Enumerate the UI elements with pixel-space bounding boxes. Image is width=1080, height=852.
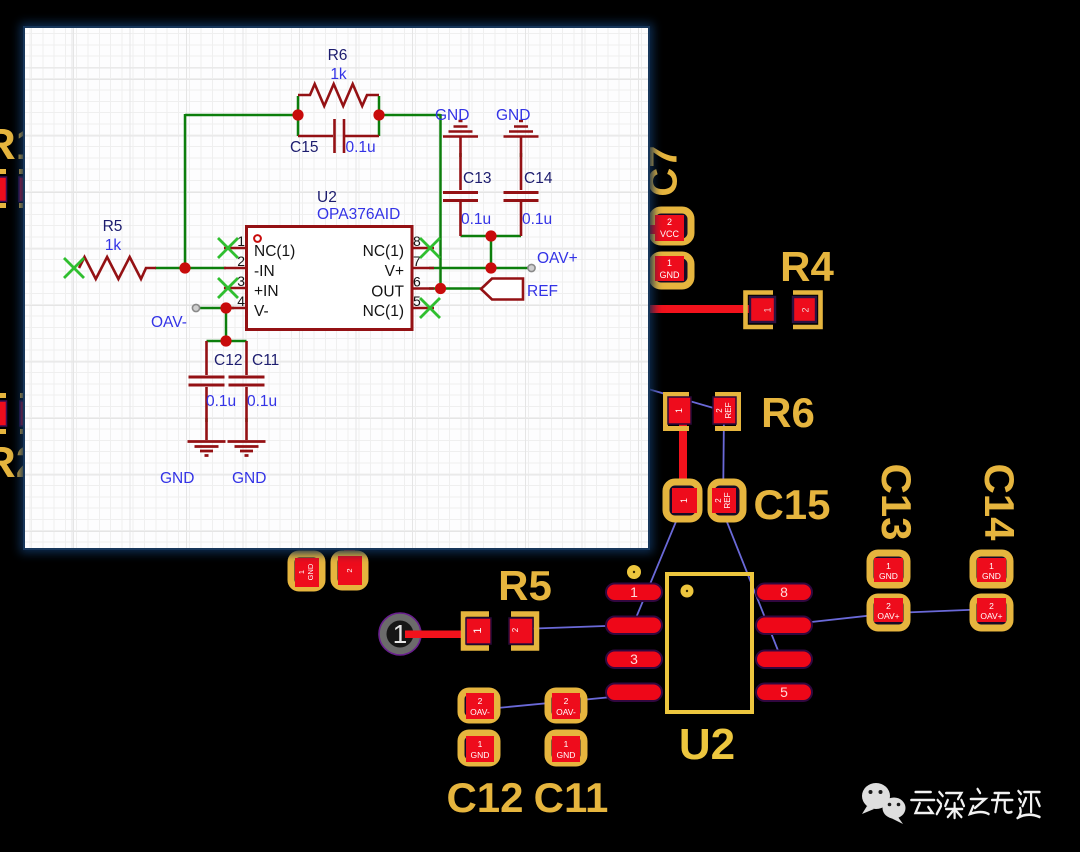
svg-text:2: 2 [345, 568, 354, 572]
svg-text:C15: C15 [753, 481, 830, 528]
resistor R5 footprint [464, 562, 552, 648]
capacitor C7 footprint [642, 145, 691, 286]
svg-text:0.1u: 0.1u [206, 393, 236, 410]
svg-text:GND: GND [557, 750, 576, 760]
svg-text:2: 2 [800, 307, 810, 312]
svg-text:C12: C12 [446, 774, 523, 821]
svg-text:4: 4 [237, 293, 245, 309]
resistor R6 footprint [666, 389, 815, 436]
svg-text:C13: C13 [873, 463, 920, 540]
svg-text:GND: GND [435, 107, 469, 124]
svg-text:C13: C13 [463, 170, 491, 187]
wire trace via to R5.1 [405, 631, 467, 639]
svg-text:U2: U2 [679, 720, 735, 769]
port REF [481, 279, 523, 300]
wire OAV- to pin4 [198, 307, 234, 310]
svg-text:0.1u: 0.1u [346, 139, 376, 156]
capacitor C12 [189, 341, 225, 440]
capacitor C14 [504, 193, 539, 237]
svg-text:VCC: VCC [660, 229, 680, 239]
svg-text:C14: C14 [524, 170, 553, 187]
svg-text:+IN: +IN [254, 283, 279, 300]
pad 2 under panel edge [334, 549, 365, 587]
junction C13/C14 bottom [485, 230, 496, 241]
svg-text:OAV-: OAV- [556, 707, 576, 717]
svg-text:C12: C12 [214, 352, 242, 369]
pin1 indicator [254, 235, 261, 242]
resistor R2 (partial, left edge) [0, 393, 40, 487]
resistor R1 (partial, left edge) [0, 120, 40, 208]
junction C12/C11 top [220, 335, 231, 346]
GND symbol top 2 [504, 121, 539, 190]
svg-text:1: 1 [472, 627, 484, 633]
svg-text:1: 1 [237, 233, 245, 249]
svg-text:NC(1): NC(1) [254, 243, 295, 260]
wire V- down [225, 308, 228, 341]
capacitor C15 footprint [666, 481, 831, 528]
svg-text:1: 1 [762, 307, 772, 312]
ratsnest C15.1 to U2.2 to R5.2 [521, 500, 685, 629]
svg-text:OAV+: OAV+ [537, 250, 578, 267]
capacitor C13 [443, 193, 478, 237]
pin numbers [237, 233, 421, 309]
svg-text:NC(1): NC(1) [363, 303, 404, 320]
svg-text:1: 1 [564, 739, 569, 749]
resistor R5 [79, 257, 156, 279]
svg-text:GND: GND [660, 270, 681, 280]
svg-text:C11: C11 [534, 774, 609, 821]
svg-text:2: 2 [511, 627, 520, 632]
svg-text:R6: R6 [761, 389, 815, 436]
svg-text:OAV+: OAV+ [877, 611, 899, 621]
net label OAV- [192, 304, 199, 311]
wire GND caps junction [461, 235, 522, 238]
svg-text:GND: GND [306, 563, 315, 580]
svg-text:2: 2 [886, 601, 891, 611]
svg-text:GND: GND [496, 107, 530, 124]
wire OUT pin6 to REF [429, 287, 481, 290]
junction -IN node [179, 262, 190, 273]
no-ERC X input [64, 258, 84, 278]
junction OUT node [435, 283, 446, 294]
svg-text:1: 1 [667, 258, 672, 268]
svg-text:8: 8 [413, 233, 421, 249]
char wu [992, 793, 1012, 813]
svg-text:2: 2 [715, 408, 724, 413]
pad GND1 under panel edge [291, 554, 322, 588]
capacitor C14 footprint [973, 463, 1023, 628]
svg-text:2: 2 [667, 217, 672, 227]
char zhi [970, 789, 989, 814]
svg-text:REF: REF [527, 283, 558, 300]
watermark text [911, 789, 1039, 818]
junction V- pin4 [220, 302, 231, 313]
svg-text:0.1u: 0.1u [522, 211, 552, 228]
ratsnest U2.7 to C13.2 to C14.2 [784, 609, 991, 625]
svg-text:-IN: -IN [254, 263, 275, 280]
svg-text:3: 3 [630, 651, 638, 667]
wire C12-C11 top [207, 340, 247, 343]
svg-text:NC(1): NC(1) [363, 243, 404, 260]
wire R6 corners [298, 96, 379, 136]
ratsnest C15.2 to U2.6 via R6.2 [648, 389, 781, 658]
char yun [911, 792, 934, 813]
wire feedback left vertical [184, 114, 187, 268]
no-ERC X pin 1 [218, 238, 238, 258]
svg-text:6: 6 [413, 274, 421, 290]
resistor R4 footprint [746, 243, 835, 327]
svg-text:0.1u: 0.1u [247, 393, 277, 410]
svg-text:2: 2 [478, 696, 483, 706]
svg-text:C14: C14 [976, 463, 1023, 541]
wire stubs on cap leads [207, 153, 522, 422]
svg-text:GND: GND [879, 571, 898, 581]
svg-text:OUT: OUT [371, 284, 404, 301]
svg-text:1: 1 [478, 739, 483, 749]
wire feedback top [185, 114, 298, 117]
svg-text:GND: GND [232, 470, 266, 487]
svg-text:1: 1 [630, 584, 638, 600]
svg-text:REF: REF [724, 402, 733, 418]
svg-text:R5: R5 [103, 218, 123, 235]
capacitor C11 footprint [534, 691, 609, 821]
svg-text:1k: 1k [105, 237, 122, 254]
capacitor C13 footprint [870, 463, 920, 628]
junction V+ node [485, 262, 496, 273]
ratsnest C12.2 to U2.4 [476, 695, 633, 710]
svg-text:C11: C11 [252, 352, 279, 369]
svg-text:1: 1 [679, 498, 689, 503]
capacitor C12 footprint [446, 691, 523, 821]
via 1 [379, 613, 421, 655]
svg-text:8: 8 [780, 584, 788, 600]
pin stubs right [412, 248, 434, 308]
svg-text:C15: C15 [290, 139, 318, 156]
junction R6 left [292, 109, 303, 120]
svg-text:V-: V- [254, 303, 269, 320]
char ji [1018, 791, 1040, 818]
char shen [937, 792, 964, 818]
wire R6 right to corner [379, 114, 441, 117]
svg-text:7: 7 [413, 253, 421, 269]
svg-text:0.1u: 0.1u [461, 211, 491, 228]
svg-text:3: 3 [237, 273, 245, 289]
svg-text:2: 2 [564, 696, 569, 706]
wire output feedback vertical [439, 114, 442, 289]
junction R6 right [373, 109, 384, 120]
op-amp U2 box [247, 227, 413, 330]
capacitor C11 [229, 341, 265, 440]
svg-text:1: 1 [886, 561, 891, 571]
GND symbol bottom 1 [188, 442, 226, 456]
svg-text:GND: GND [471, 750, 490, 760]
wire trace to R4 [648, 305, 758, 313]
no-ERC X pin 8 [420, 238, 440, 258]
svg-text:2: 2 [989, 601, 994, 611]
wire V+ pin7 to OAV+ [429, 267, 531, 270]
GND symbol bottom 2 [228, 442, 266, 456]
svg-text:OPA376AID: OPA376AID [317, 206, 400, 223]
svg-text:1: 1 [297, 570, 306, 574]
svg-text:REF: REF [723, 492, 732, 508]
wire R5 to -IN [155, 267, 226, 270]
watermark wechat icon [862, 783, 906, 824]
svg-text:1: 1 [989, 561, 994, 571]
svg-text:1k: 1k [330, 66, 347, 83]
svg-text:OAV-: OAV- [151, 314, 187, 331]
svg-text:5: 5 [780, 684, 788, 700]
pin names [254, 243, 405, 320]
no-ERC X pin 5 [420, 298, 440, 318]
svg-text:5: 5 [413, 293, 421, 309]
IC U2 footprint [606, 565, 812, 769]
svg-text:R4: R4 [780, 243, 834, 290]
svg-text:R5: R5 [498, 562, 552, 609]
svg-text:2: 2 [237, 253, 245, 269]
svg-text:GND: GND [160, 470, 194, 487]
capacitor C15 [298, 119, 379, 153]
pin stubs left [224, 248, 246, 308]
svg-text:U2: U2 [317, 189, 337, 206]
no-ERC X pin 3 [218, 278, 238, 298]
svg-text:GND: GND [982, 571, 1001, 581]
net label OAV+ [528, 264, 535, 271]
GND symbol top 1 [443, 121, 478, 190]
wire junction to V+ [490, 236, 493, 268]
wire trace R6.1 to C15.1 [679, 420, 687, 494]
svg-text:1: 1 [674, 408, 684, 413]
resistor R6 [298, 84, 379, 106]
svg-text:V+: V+ [385, 263, 404, 280]
svg-text:OAV-: OAV- [470, 707, 490, 717]
svg-text:R6: R6 [328, 47, 348, 64]
svg-text:OAV+: OAV+ [980, 611, 1002, 621]
svg-text:2: 2 [714, 498, 723, 503]
